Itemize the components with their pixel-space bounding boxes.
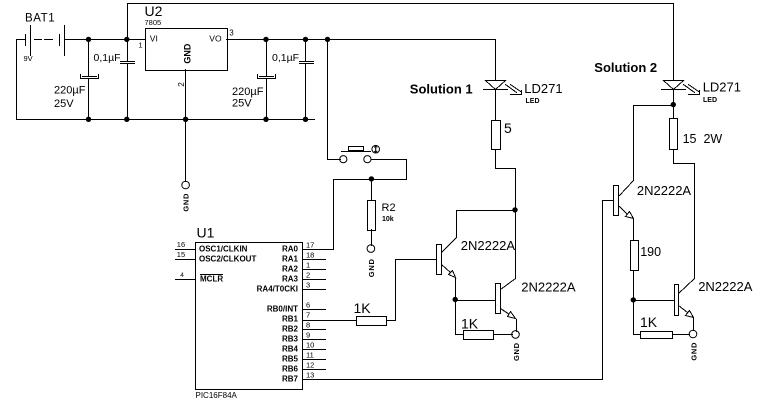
svg-text:RA1: RA1: [282, 255, 299, 264]
svg-text:8: 8: [306, 320, 310, 329]
node junction dot battery+: [86, 37, 91, 42]
svg-text:10k: 10k: [382, 216, 394, 223]
node junction dot C4 top: [303, 37, 308, 42]
svg-text:VI: VI: [150, 34, 158, 44]
node junction dot C2 bottom: [124, 117, 129, 122]
svg-text:1K: 1K: [640, 314, 658, 330]
switch S1 push button: [328, 145, 407, 179]
svg-text:RA3: RA3: [282, 275, 299, 284]
wire R6 to Q4 collector: [674, 150, 695, 279]
svg-text:10: 10: [306, 340, 314, 349]
wire junction down to R8: [634, 301, 641, 335]
svg-text:6: 6: [306, 300, 310, 309]
pin 2 RA3: [282, 270, 326, 283]
resistor R4 5ohm: [492, 120, 513, 150]
svg-text:RB6: RB6: [282, 365, 299, 374]
svg-text:LED: LED: [703, 97, 717, 104]
pin 11 RB5: [282, 350, 326, 363]
svg-text:U1: U1: [197, 224, 215, 240]
node junction dot R2 top: [369, 176, 374, 181]
ground GND symbol under U2: [182, 181, 191, 211]
transistor Q2 2N2222A solution 1: [496, 279, 576, 332]
transistor Q1 2N2222A solution 1: [437, 211, 516, 301]
node junction dot solution1 collector: [512, 207, 517, 212]
ground GND symbol solution 1: [512, 331, 521, 361]
node junction dot button tap: [325, 37, 330, 42]
svg-text:2: 2: [177, 82, 186, 87]
node junction dot top rail tap: [124, 37, 129, 42]
svg-text:1: 1: [138, 40, 142, 49]
wire R3 to Q1 base: [387, 260, 437, 321]
wire collector junction horizontal: [457, 210, 516, 212]
svg-text:BAT1: BAT1: [25, 12, 55, 24]
wire 5V rail down to push button: [327, 40, 329, 160]
wire top 9V rail: [128, 4, 674, 40]
svg-text:PIC16F84A: PIC16F84A: [196, 391, 238, 400]
node junction dot C3 top: [263, 37, 268, 42]
pin 10 RB4: [282, 340, 326, 353]
wire 5V rail down to LED1: [495, 40, 497, 81]
resistor R3 1K: [354, 300, 387, 325]
svg-text:R2: R2: [382, 202, 396, 214]
wire pin7 RB1 to R3: [303, 320, 357, 322]
svg-text:2N2222A: 2N2222A: [461, 238, 516, 253]
pin 8 RB2: [282, 320, 326, 333]
svg-text:1: 1: [306, 260, 310, 269]
svg-text:25V: 25V: [232, 97, 252, 109]
wire LED2 junction to Q3 collector branch: [634, 106, 674, 181]
svg-text:11: 11: [306, 350, 314, 359]
svg-text:25V: 25V: [54, 98, 74, 110]
svg-text:RB0/INT: RB0/INT: [267, 305, 298, 314]
pin 12 RB6: [282, 360, 326, 373]
wire pin13 RB7 to Q3 base: [303, 201, 614, 380]
svg-text:9: 9: [306, 330, 310, 339]
capacitor C2 0,1uF: [94, 40, 135, 120]
pin 13 RB7: [282, 370, 314, 383]
svg-text:15 2W: 15 2W: [683, 132, 723, 146]
svg-text:1K: 1K: [354, 300, 372, 316]
svg-text:3: 3: [306, 280, 310, 289]
node junction dot C4 bottom end of rail: [303, 117, 308, 122]
capacitor C3 220uF 25V: [232, 40, 276, 120]
svg-text:13: 13: [306, 370, 314, 379]
svg-text:4: 4: [180, 272, 184, 279]
svg-text:7: 7: [306, 310, 310, 319]
svg-text:RA4/T0CKI: RA4/T0CKI: [257, 285, 298, 294]
svg-text:5: 5: [504, 120, 512, 136]
pin 3 RA4/TOCKI: [257, 280, 326, 293]
op-amp U2 7805 regulator: [138, 3, 234, 87]
wire bottom ground rail: [17, 119, 315, 121]
ground GND symbol under R2: [367, 245, 376, 277]
svg-text:GND: GND: [182, 193, 191, 212]
svg-text:RB5: RB5: [282, 355, 299, 364]
pin 15 OSC2/CLKOUT: [176, 250, 257, 264]
svg-text:GND: GND: [367, 258, 376, 277]
svg-text:RB1: RB1: [282, 315, 299, 324]
svg-text:220µF: 220µF: [54, 84, 86, 96]
svg-text:12: 12: [306, 360, 314, 369]
svg-text:RA2: RA2: [282, 265, 299, 274]
transistor Q3 2N2222A solution 2: [614, 181, 692, 241]
LED LD271 solution 2: [662, 79, 742, 104]
svg-text:GND: GND: [690, 342, 699, 361]
resistor R8 1K solution 2: [640, 314, 690, 339]
svg-text:RB2: RB2: [282, 325, 299, 334]
svg-text:2: 2: [306, 270, 310, 279]
svg-text:U2: U2: [145, 3, 163, 19]
wire LED2 to junction: [673, 90, 675, 119]
wire LED1 to R4: [495, 90, 497, 121]
svg-text:16: 16: [177, 240, 185, 249]
svg-text:190: 190: [640, 245, 661, 259]
svg-text:9V: 9V: [24, 54, 33, 63]
svg-text:17: 17: [306, 240, 314, 249]
pin 9 RB3: [282, 330, 326, 343]
svg-text:2N2222A: 2N2222A: [521, 279, 576, 294]
wire U2 GND pin 2 down: [185, 70, 187, 182]
svg-text:Solution 2: Solution 2: [594, 60, 657, 75]
svg-text:15: 15: [177, 250, 185, 259]
svg-text:220µF: 220µF: [232, 86, 264, 98]
svg-text:LED: LED: [526, 98, 540, 105]
wire top rail down to LED2: [673, 4, 675, 81]
wire Q1 emitter to Q2 base: [456, 300, 496, 302]
wire battery negative to bottom rail: [16, 40, 18, 120]
svg-text:2N2222A: 2N2222A: [698, 279, 753, 294]
pin 17 RA0: [282, 240, 314, 253]
node junction dot C1 bottom: [86, 117, 91, 122]
IC U1 PIC16F84A: [196, 224, 303, 400]
transistor Q4 2N2222A solution 2: [675, 279, 753, 331]
svg-text:MCLR: MCLR: [200, 275, 223, 284]
wire emitter junction down to R5: [456, 301, 464, 335]
svg-text:RB3: RB3: [282, 335, 299, 344]
svg-text:0,1µF: 0,1µF: [272, 52, 299, 64]
battery BAT1: [17, 12, 90, 63]
wire R7 to junction: [633, 271, 635, 301]
ground GND symbol solution 2: [689, 330, 698, 360]
svg-text:OSC1/CLKIN: OSC1/CLKIN: [199, 245, 248, 254]
svg-text:7805: 7805: [145, 18, 162, 27]
svg-text:GND: GND: [512, 342, 521, 361]
svg-text:RA0: RA0: [282, 245, 299, 254]
svg-text:LD271: LD271: [524, 81, 562, 96]
LED LD271 solution 1: [484, 81, 563, 106]
wire button junction to pin17: [303, 180, 407, 250]
resistor R5 1K solution 1: [461, 316, 513, 340]
node junction dot U2 gnd at rail: [183, 117, 188, 122]
resistor R7 190: [631, 241, 662, 271]
svg-text:OSC2/CLKOUT: OSC2/CLKOUT: [199, 255, 256, 264]
svg-text:Solution 1: Solution 1: [410, 81, 473, 96]
wire collector junction down to Q2: [515, 211, 517, 279]
svg-text:0,1µF: 0,1µF: [94, 52, 121, 64]
pin 1 RA2: [282, 260, 326, 273]
node junction dot solution1 emitter/base: [453, 297, 458, 302]
svg-text:RB7: RB7: [282, 375, 299, 384]
node junction dot LED2: [671, 102, 676, 107]
svg-text:VO: VO: [209, 34, 222, 44]
resistor R2 10k: [368, 180, 396, 246]
node junction dot solution2 base: [631, 297, 636, 302]
svg-text:3: 3: [229, 28, 234, 37]
resistor R6 15 2W: [670, 119, 723, 150]
svg-text:LD271: LD271: [703, 79, 741, 94]
pin 4 MCLR: [176, 272, 224, 284]
wire R4 to collector junction: [496, 150, 516, 211]
pin 6 RB0/INT: [267, 300, 326, 313]
pin 18 RA1: [282, 250, 326, 263]
svg-text:RB4: RB4: [282, 345, 299, 354]
node junction dot C3 bottom: [263, 117, 268, 122]
svg-text:2N2222A: 2N2222A: [637, 183, 692, 198]
svg-text:GND: GND: [183, 43, 193, 64]
pin 7 RB1: [282, 310, 310, 323]
wire 9V rail to U2 VI: [90, 39, 146, 41]
pin 16 OSC1/CLKIN: [176, 240, 248, 254]
capacitor C4 0,1uF: [272, 40, 314, 120]
wire junction to Q4 base: [634, 300, 675, 302]
svg-text:1K: 1K: [461, 316, 479, 332]
svg-text:18: 18: [306, 250, 314, 259]
wire U2 VO output 5V rail: [227, 39, 496, 41]
capacitor C1 220uF 25V: [54, 40, 99, 120]
